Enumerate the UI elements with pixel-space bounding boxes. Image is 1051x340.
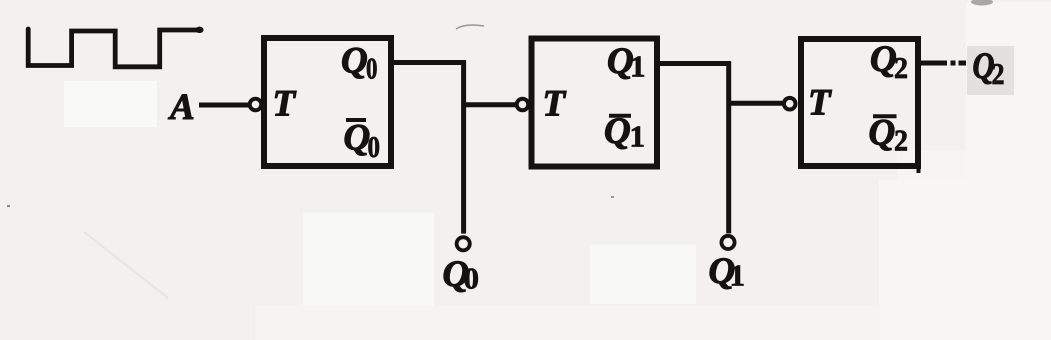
U1 pin label Q0: [341, 41, 378, 86]
svg-text:1: 1: [730, 258, 746, 293]
svg-text:2: 2: [894, 50, 908, 85]
svg-text:2: 2: [894, 123, 908, 158]
wire junction to U3 T input: [727, 101, 784, 106]
svg-text:T: T: [808, 83, 832, 124]
U3 pin label Q2: [870, 39, 908, 85]
node label Q1: [709, 251, 746, 293]
svg-text:A: A: [168, 87, 195, 128]
svg-text:Q: Q: [341, 41, 368, 82]
node label Q0: [443, 254, 480, 296]
T flip-flop U3 box: [801, 39, 918, 166]
inverting bubble at U2 T input: [517, 99, 529, 111]
svg-text:Q: Q: [604, 111, 631, 152]
node label Q2: [973, 46, 1005, 91]
U2 pin label Q1: [607, 41, 646, 84]
inverting bubble at U3 T input: [784, 98, 796, 110]
U3 pin label Q2-bar: [869, 113, 909, 158]
wire U2 Q1 output to junction: [658, 61, 731, 66]
svg-text:0: 0: [368, 129, 381, 164]
T flip-flop U1 box: [264, 38, 391, 166]
svg-text:0: 0: [366, 51, 378, 86]
svg-text:1: 1: [630, 49, 646, 84]
wire Q2 output dash segment 1: [951, 61, 956, 66]
wire A to U1 T input: [199, 103, 250, 108]
svg-text:Q: Q: [870, 39, 897, 80]
T flip-flop U2 box: [532, 39, 658, 167]
clock waveform at input: [28, 27, 203, 67]
U2 pin label Q1-bar: [604, 111, 645, 154]
terminal circle of node Q0: [457, 237, 470, 250]
svg-text:0: 0: [464, 261, 480, 296]
wire U1 Q0 output to junction: [391, 60, 466, 65]
inverting bubble at U1 T input: [250, 99, 262, 111]
wire Q2 output dash segment 2: [959, 61, 967, 66]
svg-text:T: T: [273, 84, 297, 125]
wire U3 Q2 output: [918, 61, 947, 66]
wire junction down to Q0 terminal: [461, 60, 466, 233]
svg-text:Q: Q: [344, 118, 371, 159]
svg-text:1: 1: [630, 119, 646, 154]
stub overshoot at U3 box corner: [917, 166, 921, 173]
U1 pin label Q0-bar: [344, 118, 381, 165]
wire junction to U2 T input: [461, 102, 516, 107]
wire junction down to Q1 terminal: [726, 61, 731, 233]
svg-text:Q: Q: [869, 113, 896, 154]
svg-text:2: 2: [992, 56, 1005, 91]
svg-text:T: T: [543, 84, 567, 125]
terminal circle of node Q1: [721, 236, 734, 249]
